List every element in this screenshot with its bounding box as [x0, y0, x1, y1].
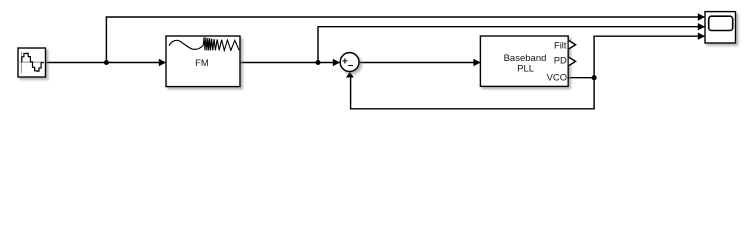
wire W2: junction J1 up and across to scope input 1: [106, 13, 705, 62]
junction J2 on FM output wire: [315, 60, 320, 65]
FM icon modulated burst: [203, 37, 239, 50]
scope screen: [709, 16, 733, 30]
wire W1: source output to FM input: [45, 59, 166, 66]
svg-text:Filt: Filt: [554, 39, 567, 50]
Baseband PLL block: [480, 36, 568, 86]
unconnected output port chevron PD: [569, 57, 576, 65]
source block (Signal From Workspace): [18, 48, 46, 77]
minus sign: [348, 65, 353, 67]
plus sign: [342, 58, 347, 63]
wire W6: PLL VCO output to junction J3, up and across to scope input 3: [568, 33, 705, 78]
scope block: [705, 12, 736, 43]
FM modulator block: [166, 36, 240, 87]
junction J3 on VCO output wire: [592, 75, 597, 80]
FM icon low-frequency sine: [169, 40, 203, 49]
wire W7: feedback from junction J3 down, left and up into sum bottom input: [346, 72, 594, 109]
svg-text:VCO: VCO: [547, 71, 567, 82]
sum block S1: [340, 53, 359, 72]
svg-text:PD: PD: [554, 55, 567, 66]
unconnected output port chevron Filt: [569, 41, 576, 49]
junction J1 on source wire: [104, 60, 109, 65]
wire W3: FM output to sum input: [240, 59, 340, 66]
svg-text:PLL: PLL: [517, 63, 534, 74]
source icon stepped sine: [22, 53, 44, 71]
wire W5: sum output to Baseband PLL input: [359, 59, 480, 66]
source icon axes: [20, 52, 44, 74]
svg-text:FM: FM: [195, 57, 209, 68]
wire W4: junction J2 up and across to scope input 2: [318, 23, 705, 63]
